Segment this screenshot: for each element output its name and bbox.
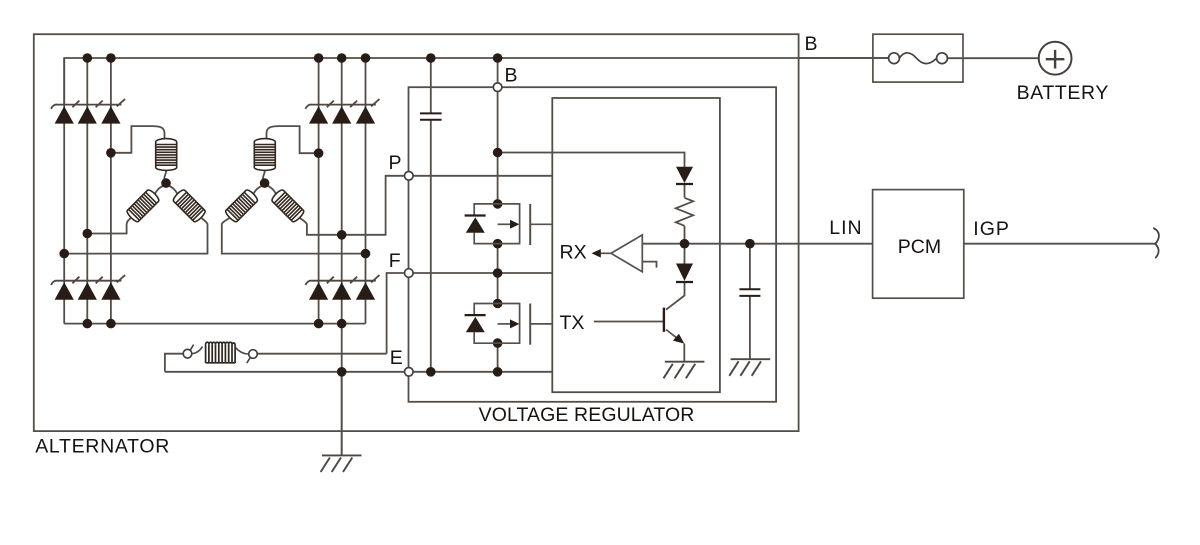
node bus column3 [106, 53, 116, 63]
wire D14 to transistor collector [666, 281, 685, 309]
svg-text:RX: RX [560, 242, 587, 264]
fuse F1 element [889, 53, 900, 64]
node MOSFET Q1 drain [493, 199, 503, 209]
wire fuse to battery feed [799, 57, 1039, 59]
MOSFET Q1 [465, 204, 553, 245]
node bus column5 [337, 53, 347, 63]
avalanche cathode bar upper-left group [51, 99, 125, 109]
terminal F [405, 269, 414, 278]
node bus MOSFET column [493, 53, 503, 63]
wire rectifier column 6 [365, 58, 367, 324]
rectifier diode D6 [356, 106, 375, 123]
wire transistor emitter to ground [683, 344, 685, 362]
wire D13 cathode to resistor [684, 184, 686, 198]
rectifier diode D10 [309, 282, 328, 299]
svg-text:B: B [805, 33, 818, 55]
fuse F1 box [873, 34, 963, 82]
node P leg column5 [337, 230, 347, 240]
node MOSFET Q1 source [493, 239, 503, 249]
wire main ground drop [341, 372, 343, 456]
wire left stator right leg to column 1 [64, 218, 207, 254]
diode D14 [676, 264, 693, 281]
stator winding L1 vertical coil [156, 139, 177, 171]
node E row MOSFET column [493, 367, 503, 377]
node ground bus column4 [314, 319, 324, 329]
svg-text:E: E [390, 347, 403, 369]
alternator enclosure box [34, 34, 799, 431]
node left leg column2 [83, 229, 93, 239]
rectifier diode D11 [332, 282, 351, 299]
transistor Q3 emitter [666, 330, 679, 340]
node E row capacitor column [426, 367, 436, 377]
node bus column6 [361, 53, 371, 63]
node ground bus column2 [83, 319, 93, 329]
stator winding L1 right diagonal coil [172, 188, 207, 223]
wire right stator neutral stub [254, 171, 276, 194]
node MOSFET Q2 drain [493, 299, 503, 309]
svg-text:TX: TX [560, 312, 585, 334]
node MOSFET Q2 source [493, 338, 503, 348]
wire rectifier column 2 [86, 58, 88, 324]
wire rectifier column 4 [318, 58, 320, 324]
IGP wire break squiggle [1154, 228, 1159, 257]
rectifier diode D7 [55, 282, 74, 299]
wire B+ top bus [64, 58, 888, 105]
wire TX drive to transistor base [594, 321, 664, 323]
svg-text:P: P [389, 152, 402, 174]
terminal B regulator [493, 83, 502, 92]
rectifier diode D2 [78, 106, 97, 123]
wire C2 column [749, 244, 751, 360]
rectifier diode D1 [55, 106, 74, 123]
node ground bus column3 [106, 319, 116, 329]
wire F field row [387, 273, 553, 354]
wire regulator capacitor column [430, 58, 432, 372]
node bus column4 [314, 53, 324, 63]
PCM box [873, 190, 964, 299]
node right stator neutral [260, 178, 270, 188]
op-amp U1 RX buffer [611, 235, 642, 272]
wire right stator phase-top branch [267, 126, 319, 153]
field winding L3 slip ring right [249, 350, 258, 359]
ground under C2 [729, 359, 770, 376]
field winding L3 coil [192, 342, 249, 363]
wire LIN node to D14 [684, 244, 686, 264]
wire resistor to LIN node [684, 226, 686, 244]
wire rectifier column 5 (ground column) [341, 58, 343, 455]
avalanche cathode bar lower-right group [305, 275, 379, 285]
wire rectifier column 1 [63, 58, 65, 324]
regulator control IC inner box [552, 98, 720, 392]
wire LIN output row [685, 243, 873, 245]
stator winding L2 vertical coil [254, 139, 275, 171]
node LIN filter cap [745, 239, 755, 249]
svg-text:LIN: LIN [829, 217, 862, 239]
battery BT1 [1039, 42, 1072, 75]
rectifier diode D3 [101, 106, 120, 123]
svg-text:B: B [505, 65, 518, 87]
svg-text:F: F [389, 250, 401, 272]
node ground bus column5 [337, 319, 347, 329]
node long leg column6 [361, 249, 371, 259]
svg-text:IGP: IGP [973, 218, 1010, 240]
RX arrow [599, 252, 611, 254]
ground under transistor Q3 [664, 362, 705, 379]
wire right stator right leg / P sense wire [300, 176, 552, 235]
wire RX reference stub [642, 262, 656, 268]
node left stator neutral [161, 178, 171, 188]
wire B sense into control IC [498, 153, 685, 167]
capacitor C1 [420, 113, 442, 119]
terminal E [405, 368, 414, 377]
node phase branch column4 [314, 148, 324, 158]
rectifier diode D12 [356, 282, 375, 299]
rectifier diode D4 [309, 106, 328, 123]
node bus column2 [83, 53, 93, 63]
wire right stator left leg to column 6 [222, 218, 366, 254]
capacitor C2 [739, 289, 760, 296]
resistor R1 [676, 198, 693, 226]
wire IGP output [964, 243, 1155, 245]
avalanche cathode bar lower-left group [51, 275, 125, 285]
rectifier diode D5 [332, 106, 351, 123]
ground alternator main [321, 455, 362, 472]
node B sense tap [493, 148, 503, 158]
svg-text:VOLTAGE REGULATOR: VOLTAGE REGULATOR [479, 404, 695, 426]
wire MOSFET column [497, 58, 499, 372]
wire bottom ground bus [64, 323, 365, 325]
wire E ground row [165, 371, 552, 373]
node E row ground column [337, 367, 347, 377]
wire left stator left leg to column 2 [87, 218, 131, 234]
field winding L3 slip ring left [183, 349, 192, 358]
terminal P [405, 172, 414, 181]
wire field coil right lead [257, 353, 386, 355]
stator winding L2 right diagonal coil [270, 188, 305, 223]
node bus capacitor column [426, 53, 436, 63]
rectifier diode D8 [78, 282, 97, 299]
stator winding L2 left diagonal coil [224, 188, 259, 223]
svg-text:BATTERY: BATTERY [1017, 82, 1109, 104]
wire rectifier column 3 [110, 58, 112, 324]
svg-text:ALTERNATOR: ALTERNATOR [35, 436, 170, 458]
voltage regulator box [409, 87, 777, 402]
diode D13 [676, 167, 693, 183]
node F row tap [493, 268, 503, 278]
svg-text:PCM: PCM [898, 236, 941, 258]
wire left stator phase-top branch [111, 126, 165, 153]
transistor Q3 base bar [663, 308, 665, 332]
node phase branch column3 [106, 148, 116, 158]
wire field coil left lead [165, 354, 183, 372]
MOSFET Q2 [465, 304, 553, 345]
avalanche cathode bar upper-right group [305, 99, 379, 109]
wire left stator neutral stub [155, 171, 177, 194]
wire RX comparator input [642, 243, 684, 245]
rectifier diode D9 [101, 282, 120, 299]
stator winding L1 left diagonal coil [126, 188, 161, 223]
node LIN divider [680, 239, 690, 249]
node long leg column1 [59, 249, 69, 259]
